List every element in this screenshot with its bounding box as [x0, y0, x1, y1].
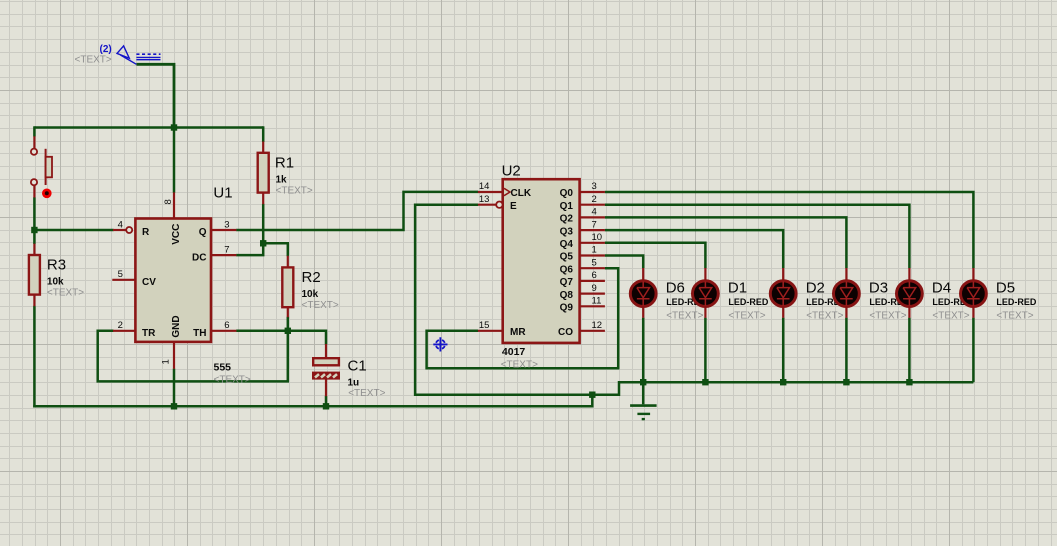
svg-text:Q9: Q9 — [560, 303, 574, 314]
svg-text:Q4: Q4 — [560, 239, 574, 250]
voltage probe symbol — [117, 46, 161, 64]
junction D2 on cathode bus — [780, 379, 786, 385]
U2 CLK clock triangle — [504, 188, 510, 195]
svg-text:<TEXT>: <TEXT> — [501, 360, 538, 371]
svg-text:GND: GND — [171, 315, 182, 337]
resistor R1 top lead — [262, 142, 264, 154]
svg-text:TH: TH — [193, 328, 206, 339]
svg-text:12: 12 — [592, 320, 603, 331]
wire LED cathode bus — [619, 381, 973, 384]
U2 pin 15 MR lead — [478, 330, 503, 332]
LED D3 cathode lead — [845, 306, 847, 318]
LED D1 body — [693, 281, 719, 307]
wire U1 TR loop — [98, 330, 288, 382]
wire node B to R2 — [262, 243, 288, 256]
svg-text:CLK: CLK — [511, 188, 532, 199]
svg-text:<TEXT>: <TEXT> — [348, 388, 385, 399]
capacitor C1 bottom plate (polarized hatch) — [312, 372, 340, 380]
junction ground bus rise — [589, 392, 595, 398]
svg-text:D3: D3 — [869, 279, 888, 296]
wire U2 MR to Q6 — [427, 268, 619, 368]
svg-text:Q8: Q8 — [560, 290, 574, 301]
svg-text:D6: D6 — [666, 279, 685, 296]
U2 pin 9 Q8 lead — [579, 293, 605, 295]
U2 pin 1 Q5 lead — [579, 254, 605, 256]
U2 pin 13 E inversion bubble — [496, 202, 502, 208]
svg-text:2: 2 — [592, 194, 597, 205]
svg-text:Q2: Q2 — [560, 214, 574, 225]
svg-text:<TEXT>: <TEXT> — [932, 311, 969, 322]
svg-text:U2: U2 — [502, 162, 521, 179]
wire C1 to ground bus — [325, 396, 328, 408]
resistor R2 top lead — [287, 256, 289, 268]
wire U2 Q4 to D1 — [605, 243, 706, 268]
LED D2 anode lead — [782, 268, 784, 282]
wire D1 cathode to bus — [704, 318, 707, 383]
svg-text:1: 1 — [161, 359, 172, 364]
U1 pin 4 inversion bubble — [126, 227, 132, 233]
svg-text:<TEXT>: <TEXT> — [996, 311, 1033, 322]
svg-text:Q6: Q6 — [560, 264, 574, 275]
junction C1 on ground bus — [323, 403, 329, 409]
LED D3 body — [834, 281, 860, 307]
svg-text:D4: D4 — [932, 279, 951, 296]
IC U2 4017 body — [503, 179, 580, 343]
svg-text:R: R — [142, 227, 150, 238]
ground — [630, 406, 657, 420]
svg-text:1: 1 — [592, 245, 597, 256]
svg-text:<TEXT>: <TEXT> — [75, 55, 112, 66]
svg-text:E: E — [510, 201, 517, 212]
wire R3 to ground bus — [33, 306, 36, 408]
U1 pin 3 lead — [211, 229, 237, 231]
svg-text:10k: 10k — [302, 289, 319, 300]
svg-text:11: 11 — [592, 296, 602, 307]
svg-text:<TEXT>: <TEXT> — [869, 311, 906, 322]
svg-text:10k: 10k — [47, 276, 64, 287]
svg-text:10: 10 — [592, 232, 603, 243]
U2 pin 5 Q6 lead — [579, 267, 605, 269]
svg-text:15: 15 — [479, 320, 490, 331]
svg-text:3: 3 — [224, 219, 229, 230]
svg-text:D5: D5 — [996, 279, 1015, 296]
U1 pin 6 lead — [211, 330, 237, 332]
wire D3 cathode to bus — [845, 318, 848, 383]
svg-text:<TEXT>: <TEXT> — [47, 288, 84, 299]
svg-text:6: 6 — [224, 320, 229, 331]
wire ground symbol drop — [642, 382, 645, 404]
wire U1 Q to U2 CLK — [236, 192, 478, 230]
svg-text:CV: CV — [142, 277, 156, 288]
wire node B to U1 pin7 — [236, 242, 263, 255]
svg-text:LED-RED: LED-RED — [728, 297, 768, 307]
wire VCC bus to button — [33, 126, 36, 136]
U1 pin 7 lead — [211, 254, 237, 256]
U2 pin 13 E lead — [478, 204, 496, 206]
U1 pin 2 lead — [113, 330, 136, 332]
U2 pin 4 Q2 lead — [579, 216, 605, 218]
junction pin1 on ground bus — [171, 403, 177, 409]
LED D5 anode lead — [972, 268, 974, 282]
LED D5 body — [961, 281, 987, 307]
svg-text:D2: D2 — [806, 279, 825, 296]
button SW1 red state indicator — [42, 189, 52, 199]
svg-text:<TEXT>: <TEXT> — [276, 186, 313, 197]
svg-text:CO: CO — [558, 327, 573, 338]
wire R1 to node B — [262, 204, 265, 244]
svg-text:U1: U1 — [213, 185, 232, 202]
wire VCC node to U1 pin8 — [173, 126, 176, 192]
U2 pin 11 Q9 lead — [579, 305, 605, 307]
U2 pin 10 Q4 lead — [579, 242, 605, 244]
wire D5 cathode to bus — [972, 318, 975, 383]
wire D4 cathode to bus — [908, 318, 911, 383]
svg-text:5: 5 — [118, 269, 123, 280]
LED D5 cathode lead — [972, 306, 974, 318]
svg-text:<TEXT>: <TEXT> — [806, 311, 843, 322]
U2 pin 7 Q3 lead — [579, 229, 605, 231]
wire node A to U1 pin4 — [34, 229, 113, 232]
svg-text:D1: D1 — [728, 279, 747, 296]
wire D6 cathode to bus — [642, 318, 645, 383]
junction D1 on cathode bus — [702, 379, 708, 385]
capacitor C1 top plate — [313, 358, 339, 365]
svg-text:Q0: Q0 — [560, 188, 574, 199]
wire VCC bus to R1 — [262, 126, 265, 142]
LED D4 cathode lead — [908, 306, 910, 318]
svg-text:R3: R3 — [47, 257, 66, 274]
svg-text:2: 2 — [118, 320, 123, 331]
LED D4 anode lead — [908, 268, 910, 282]
svg-text:R2: R2 — [302, 269, 321, 286]
origin marker — [433, 337, 447, 351]
U1 pin 4 lead — [113, 229, 126, 231]
svg-text:<TEXT>: <TEXT> — [214, 375, 251, 386]
svg-text:3: 3 — [592, 181, 597, 192]
LED D6 body — [630, 281, 656, 307]
svg-text:4: 4 — [118, 219, 123, 230]
svg-text:8: 8 — [163, 199, 174, 204]
wire U2 Q0 to D5 — [605, 192, 974, 268]
U1 pin 5 lead — [112, 279, 136, 281]
U2 pin 2 Q1 lead — [579, 204, 605, 206]
U2 pin 14 CLK lead — [478, 191, 503, 193]
svg-text:Q3: Q3 — [560, 226, 574, 237]
U2 pin 12 CO lead — [579, 330, 605, 332]
wire U2 Q3 to D2 — [605, 230, 783, 268]
LED D6 cathode lead — [642, 306, 644, 318]
resistor R3 body — [29, 255, 40, 295]
button SW1 actuator bar — [46, 149, 52, 185]
svg-text:<TEXT>: <TEXT> — [302, 300, 339, 311]
svg-text:VCC: VCC — [171, 224, 182, 245]
svg-text:9: 9 — [592, 283, 597, 294]
LED D2 body — [770, 281, 796, 307]
U1 pin 1 lead — [173, 341, 175, 368]
svg-text:5: 5 — [592, 257, 597, 268]
svg-text:4017: 4017 — [502, 346, 526, 358]
IC U1 555 body — [135, 219, 211, 342]
wire U2 E to ground net — [415, 205, 619, 395]
capacitor C1 bottom lead — [325, 379, 327, 396]
wire D2 cathode to bus — [782, 318, 785, 383]
LED D1 anode lead — [704, 268, 706, 282]
svg-text:Q7: Q7 — [560, 277, 574, 288]
svg-text:<TEXT>: <TEXT> — [666, 311, 703, 322]
LED D3 anode lead — [845, 268, 847, 282]
wire U2 Q5 to D6 — [605, 256, 643, 269]
LED D1 cathode lead — [704, 306, 706, 318]
svg-text:1u: 1u — [348, 378, 360, 389]
resistor R1 body — [258, 153, 269, 193]
wire ground bus — [33, 395, 592, 407]
wire U2 Q1 to D4 — [605, 205, 910, 269]
resistor R3 bottom lead — [33, 294, 35, 306]
svg-text:555: 555 — [214, 362, 232, 374]
resistor R2 bottom lead — [287, 307, 289, 317]
svg-text:6: 6 — [592, 270, 597, 281]
svg-text:4: 4 — [592, 207, 597, 218]
LED D2 cathode lead — [782, 306, 784, 318]
U1 pin 8 lead — [173, 192, 175, 219]
wire U2 Q2 to D3 — [605, 217, 847, 268]
junction D3 on cathode bus — [843, 379, 849, 385]
U2 pin 3 Q0 lead — [579, 191, 605, 193]
LED D6 anode lead — [642, 268, 644, 282]
wire VCC bus — [34, 126, 263, 129]
svg-text:Q: Q — [199, 227, 207, 238]
resistor R2 body — [282, 267, 293, 307]
LED D4 body — [897, 281, 923, 307]
svg-text:Q1: Q1 — [560, 201, 574, 212]
svg-text:MR: MR — [510, 327, 526, 338]
svg-text:1k: 1k — [276, 174, 288, 185]
svg-text:C1: C1 — [348, 357, 367, 374]
wire U1 pin1 to ground bus — [173, 369, 176, 408]
wire probe to VCC node — [136, 64, 174, 127]
resistor R3 top lead — [33, 244, 35, 256]
svg-text:7: 7 — [224, 245, 229, 256]
button SW1 contact circles — [31, 149, 37, 186]
junction node B (R1/R2/pin7) — [260, 240, 266, 246]
svg-text:R1: R1 — [275, 155, 294, 172]
junction D4 on cathode bus — [906, 379, 912, 385]
svg-text:LED-RED: LED-RED — [996, 297, 1036, 307]
junction D6/ground on cathode bus — [640, 379, 646, 385]
wire R2 to TH node — [287, 317, 290, 332]
svg-text:Q5: Q5 — [560, 252, 574, 263]
button SW1 bottom lead — [33, 186, 35, 198]
svg-text:14: 14 — [479, 181, 490, 192]
junction VCC node — [171, 124, 177, 130]
resistor R1 bottom lead — [262, 192, 264, 204]
svg-text:TR: TR — [142, 328, 156, 339]
capacitor C1 top lead — [325, 344, 327, 358]
svg-text:<TEXT>: <TEXT> — [728, 311, 765, 322]
button SW1 top lead — [33, 136, 35, 148]
wire U1 TH to C1 — [236, 331, 326, 345]
junction node A (switch/R3/pin4) — [31, 227, 37, 233]
junction TH node (R2/TR/C1) — [285, 328, 291, 334]
svg-text:DC: DC — [192, 253, 206, 264]
svg-text:13: 13 — [479, 194, 490, 205]
wire button to node A — [33, 197, 36, 244]
svg-text:7: 7 — [592, 219, 597, 230]
svg-text:(2): (2) — [100, 44, 112, 55]
U2 pin 6 Q7 lead — [579, 280, 605, 282]
